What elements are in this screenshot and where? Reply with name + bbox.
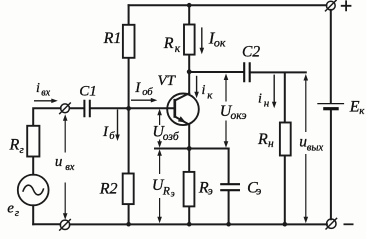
svg-text:C2: C2 bbox=[242, 44, 260, 61]
svg-text:i: i bbox=[202, 83, 206, 98]
svg-text:вх: вх bbox=[65, 162, 75, 173]
svg-text:R2: R2 bbox=[99, 180, 118, 197]
svg-text:E: E bbox=[349, 99, 360, 116]
svg-text:e: e bbox=[7, 201, 14, 217]
svg-text:i: i bbox=[36, 81, 40, 96]
svg-text:I: I bbox=[102, 124, 109, 140]
svg-text:г: г bbox=[15, 207, 20, 219]
svg-text:об: об bbox=[142, 87, 153, 98]
svg-text:R: R bbox=[162, 185, 170, 197]
svg-text:э: э bbox=[256, 185, 261, 197]
svg-text:VT: VT bbox=[158, 73, 177, 89]
svg-text:R1: R1 bbox=[103, 30, 122, 47]
svg-text:C1: C1 bbox=[79, 83, 97, 99]
svg-text:к: к bbox=[359, 105, 365, 117]
svg-text:н: н bbox=[264, 97, 270, 109]
svg-text:u: u bbox=[55, 154, 63, 170]
svg-text:г: г bbox=[20, 144, 25, 156]
svg-text:вх: вх bbox=[41, 88, 50, 99]
svg-text:э: э bbox=[171, 189, 175, 199]
svg-text:R: R bbox=[9, 136, 20, 153]
svg-text:б: б bbox=[109, 131, 115, 142]
svg-text:к: к bbox=[207, 89, 213, 101]
svg-text:э: э bbox=[208, 185, 213, 197]
svg-text:R: R bbox=[257, 131, 268, 148]
svg-text:i: i bbox=[258, 92, 262, 107]
svg-text:I: I bbox=[134, 80, 141, 96]
svg-text:к: к bbox=[175, 43, 181, 55]
svg-text:R: R bbox=[163, 35, 174, 52]
svg-text:окэ: окэ bbox=[231, 110, 247, 122]
svg-text:вых: вых bbox=[307, 143, 324, 154]
svg-text:н: н bbox=[268, 138, 274, 150]
svg-text:ок: ок bbox=[214, 35, 226, 49]
svg-text:озб: озб bbox=[163, 131, 180, 143]
